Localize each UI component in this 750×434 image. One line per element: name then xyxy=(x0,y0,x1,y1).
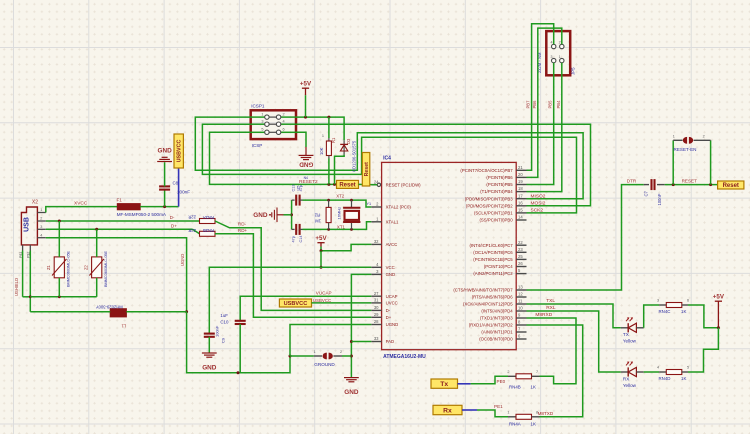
junction R2 top xyxy=(327,199,330,202)
svg-text:24: 24 xyxy=(374,179,379,184)
svg-text:+5V: +5V xyxy=(713,294,725,301)
junction Z1 top xyxy=(58,220,61,223)
IC4 right pin 18 PB4 xyxy=(516,191,526,193)
svg-text:PE1: PE1 xyxy=(494,404,503,409)
wire MISO2 loop (ICSP pin1 to IC pin17) xyxy=(195,117,583,199)
junction RESET-EN right xyxy=(709,183,712,186)
svg-text:(AIN2/PCINT11)PC2: (AIN2/PCINT11)PC2 xyxy=(473,271,513,276)
svg-text:C7: C7 xyxy=(644,190,649,196)
svg-text:30: 30 xyxy=(374,305,379,310)
+5V symbol right xyxy=(715,300,722,302)
svg-text:GND: GND xyxy=(202,365,217,372)
svg-text:100nF: 100nF xyxy=(177,190,190,195)
resistor RN4D 1K xyxy=(659,371,666,373)
IC4 right pin 17 PB3 xyxy=(516,198,526,200)
svg-text:PAD: PAD xyxy=(386,339,395,344)
svg-text:JP5: JP5 xyxy=(571,67,576,75)
svg-text:USBVCC: USBVCC xyxy=(284,301,308,307)
svg-text:(PCINT10)PC4: (PCINT10)PC4 xyxy=(484,264,514,269)
svg-text:Reset: Reset xyxy=(339,183,355,189)
svg-text:22R: 22R xyxy=(188,215,196,220)
svg-text:(XCK/AIN4/PCINT12)PD5: (XCK/AIN4/PCINT12)PD5 xyxy=(463,302,513,307)
IC4 left pin 1 XTAL1 xyxy=(371,221,381,223)
wire C7 to RESET node xyxy=(665,184,718,186)
svg-text:16MHz: 16MHz xyxy=(336,207,341,220)
junction crystal gnd tap xyxy=(290,213,293,216)
wire blue to USBVCC tag xyxy=(178,168,180,207)
svg-text:Rx: Rx xyxy=(443,407,452,414)
wire ground rail to jumper xyxy=(290,355,314,357)
svg-text:3: 3 xyxy=(551,55,553,59)
ground symbol below C9 xyxy=(202,353,217,357)
diode D3 xyxy=(343,140,345,155)
wire TX led to RN4C xyxy=(644,305,659,328)
IC4 right pin 14 PB0 xyxy=(516,219,526,221)
IC4 left pin 29 D+ xyxy=(371,316,381,318)
IC4 right pin 19 PB5 xyxy=(516,184,526,186)
IC4 right pin 7 PD1 xyxy=(516,331,526,333)
svg-text:XTAL2 (PC0): XTAL2 (PC0) xyxy=(386,205,412,210)
svg-text:BMMC0603MLC-05E: BMMC0603MLC-05E xyxy=(67,250,71,287)
IC4 left pin 2 XTAL2 xyxy=(371,206,381,208)
X2 pin2 stub xyxy=(37,220,45,222)
wire RN4B to IC pin9 M8RXD xyxy=(527,318,577,384)
svg-text:PB5: PB5 xyxy=(548,100,553,109)
svg-text:2: 2 xyxy=(283,112,285,116)
svg-text:C13: C13 xyxy=(292,185,296,192)
svg-text:11: 11 xyxy=(518,299,523,304)
IC4 right pin 10 PD4 xyxy=(516,310,526,312)
JP5 pin circle xyxy=(560,58,564,62)
svg-text:(RXD1/AIN1/INT2)PD2: (RXD1/AIN1/INT2)PD2 xyxy=(469,323,514,328)
svg-text:UGND: UGND xyxy=(386,322,399,327)
svg-text:D3: D3 xyxy=(346,138,351,144)
svg-text:C9: C9 xyxy=(221,337,226,343)
svg-text:AVCC: AVCC xyxy=(386,242,398,247)
wire RN4C to +5V node xyxy=(688,305,718,328)
svg-text:ICSP: ICSP xyxy=(252,143,263,148)
svg-text:USHIELD: USHIELD xyxy=(14,278,19,296)
wire jumper to gnd node xyxy=(342,355,351,357)
X2 shield pins P$1 P$2 xyxy=(22,245,24,251)
wire XT2 rail xyxy=(303,200,372,207)
junction L1 output xyxy=(185,310,188,313)
svg-text:25: 25 xyxy=(518,254,523,259)
svg-text:(CTS/HWB/AIN6/TO/INT7)PD7: (CTS/HWB/AIN6/TO/INT7)PD7 xyxy=(453,288,513,293)
svg-text:VUCAP: VUCAP xyxy=(316,290,332,295)
svg-text:GND: GND xyxy=(299,161,314,168)
IC4 right pin 26 PC4 xyxy=(516,266,526,268)
supply tag USBVCC vertical xyxy=(174,134,183,168)
wire Tx tag stub blue xyxy=(458,383,471,385)
IC4 left pin 28 UGND xyxy=(371,324,381,326)
svg-text:XT2: XT2 xyxy=(336,194,345,199)
svg-text:ATMEGA16U2-MU: ATMEGA16U2-MU xyxy=(383,354,426,360)
tag Tx xyxy=(431,379,458,388)
svg-text:(AIN0/INT1)PD1: (AIN0/INT1)PD1 xyxy=(481,330,513,335)
svg-text:21: 21 xyxy=(518,165,523,170)
svg-text:D-: D- xyxy=(386,308,391,313)
svg-text:4: 4 xyxy=(551,41,553,45)
IC4 right pin 13 PD7 xyxy=(516,289,526,291)
ground symbol above C8 xyxy=(157,157,172,161)
capacitor C9 100nF plates xyxy=(204,334,215,337)
IC4 right pin 23 PC6 xyxy=(516,251,526,253)
svg-text:RESET2: RESET2 xyxy=(299,179,318,185)
svg-text:PB6: PB6 xyxy=(532,100,537,109)
svg-text:(PCINT9/OC1B)PC5: (PCINT9/OC1B)PC5 xyxy=(473,257,513,262)
wire gnd stub to riser xyxy=(284,214,292,216)
svg-text:29: 29 xyxy=(374,312,379,317)
svg-text:BMMC0603MLC-05E: BMMC0603MLC-05E xyxy=(104,250,108,287)
svg-text:Z1: Z1 xyxy=(46,264,51,270)
wire Reset tag to IC RESET pin xyxy=(359,183,378,185)
junction Z1 bottom xyxy=(58,295,61,298)
svg-text:C14: C14 xyxy=(299,236,303,243)
svg-text:23: 23 xyxy=(518,247,523,252)
svg-text:X2: X2 xyxy=(32,199,38,205)
X2 pin1 stub xyxy=(37,212,45,214)
JP5 pin circle xyxy=(552,44,556,48)
IC4 right pin 5 PC2 xyxy=(516,273,526,275)
svg-text:26: 26 xyxy=(518,261,523,266)
svg-text:GROUND: GROUND xyxy=(314,362,335,367)
connector ICSP1 box xyxy=(251,110,296,139)
svg-text:28: 28 xyxy=(374,319,379,324)
wire RN4A to IC pin8 xyxy=(527,325,583,417)
wire UCAP to C10 xyxy=(240,296,371,321)
svg-text:RN3A: RN3A xyxy=(203,215,214,220)
wire UGND rail down and right xyxy=(187,312,290,373)
wire +5V rail ICSP pin2 xyxy=(296,117,344,140)
svg-text:RN3B: RN3B xyxy=(203,228,214,233)
wire ICSP pin4 MOSI2 rail to IC pin16 xyxy=(296,124,591,206)
svg-text:3: 3 xyxy=(261,120,263,124)
svg-text:ICSP1: ICSP1 xyxy=(251,103,265,108)
svg-text:VCC: VCC xyxy=(386,265,395,270)
svg-text:(SCLK/PCINT1)PB1: (SCLK/PCINT1)PB1 xyxy=(474,211,513,216)
junction RESET-EN left xyxy=(672,183,675,186)
connector JP5 box xyxy=(546,31,570,75)
wire D+ row USB pin3 to resistor xyxy=(46,228,193,230)
svg-text:F1: F1 xyxy=(117,197,123,202)
svg-text:(INT5/AIN3)PD4: (INT5/AIN3)PD4 xyxy=(481,309,513,314)
svg-text:(TXD1/INT3)PD3: (TXD1/INT3)PD3 xyxy=(480,316,513,321)
junction ground rail right xyxy=(350,355,353,358)
wire RESET2 rail (ICSP pin5 to IC RESET) xyxy=(210,132,337,184)
svg-text:GND: GND xyxy=(253,212,268,219)
svg-text:12: 12 xyxy=(518,292,523,297)
wire PB7 (JP5 pin4 to IC pin21) xyxy=(527,24,554,171)
svg-text:100nF: 100nF xyxy=(657,193,662,205)
wire varistor common rail xyxy=(30,296,96,298)
IC4 right pin 11 PD5 xyxy=(516,303,526,305)
svg-text:1: 1 xyxy=(40,208,42,212)
svg-text:RN4D: RN4D xyxy=(659,376,671,381)
tag Reset vertical xyxy=(362,153,370,187)
junction R1 top xyxy=(327,116,330,119)
svg-text:(PCINT7/OC0A/OC1C)PB7: (PCINT7/OC0A/OC1C)PB7 xyxy=(460,168,513,173)
svg-text:2: 2 xyxy=(559,41,561,45)
svg-text:C8: C8 xyxy=(173,181,179,186)
svg-text:31: 31 xyxy=(374,298,379,303)
svg-text:UCAP: UCAP xyxy=(386,294,398,299)
wire fuse to junction xyxy=(140,206,178,208)
capacitor C14 in XT1 rail xyxy=(292,228,295,230)
svg-text:1: 1 xyxy=(559,55,561,59)
svg-text:33: 33 xyxy=(374,336,379,341)
wire shield rail to L1 xyxy=(30,311,110,313)
junction Y1 top xyxy=(350,199,353,202)
IC4 left pin 33 PAD xyxy=(371,341,381,343)
junction UGND meets ground rail xyxy=(289,355,292,358)
solder jumper RESET-EN xyxy=(672,140,674,184)
svg-text:PB4: PB4 xyxy=(556,100,561,109)
svg-text:RN4B: RN4B xyxy=(509,385,521,390)
IC4 left pin 30 D- xyxy=(371,309,381,311)
svg-text:Z2: Z2 xyxy=(83,264,88,270)
wire XT1 rail xyxy=(303,222,372,230)
IC4 right pin 6 PD0 xyxy=(516,338,526,340)
capacitor C13 in XT2 rail xyxy=(292,199,295,201)
svg-text:2: 2 xyxy=(340,350,342,354)
svg-text:+5V: +5V xyxy=(300,81,312,88)
wire VCC rail xyxy=(209,267,371,333)
wire PB6 (JP5 pin2 to IC pin20) xyxy=(527,28,562,177)
svg-text:MF-MSMF050-2 500mA: MF-MSMF050-2 500mA xyxy=(117,212,167,217)
wire XVCC from USB pin1 xyxy=(46,207,118,213)
svg-text:RX: RX xyxy=(623,377,629,382)
svg-text:Yellow: Yellow xyxy=(623,339,637,344)
svg-text:19: 19 xyxy=(518,179,523,184)
IC4 right pin 16 PB2 xyxy=(516,205,526,207)
svg-text:RN4C: RN4C xyxy=(659,309,671,314)
svg-text:(T1/PCINT4)PB4: (T1/PCINT4)PB4 xyxy=(480,189,513,194)
wire C10 to ground rail xyxy=(239,324,241,373)
IC4 right pin 20 PB6 xyxy=(516,176,526,178)
ICSP1 pin row 1/2 circles xyxy=(269,116,276,118)
svg-text:XVCC: XVCC xyxy=(74,201,88,207)
svg-text:22R: 22R xyxy=(188,228,196,233)
svg-text:PB7: PB7 xyxy=(526,100,531,109)
junction +5V drop xyxy=(304,116,307,119)
wire Tx row to RN4B xyxy=(471,376,508,384)
svg-text:47p: 47p xyxy=(292,236,296,242)
capacitor C10 1uF plates xyxy=(235,321,246,324)
svg-text:MH2029-300Y: MH2029-300Y xyxy=(96,304,123,309)
tag Reset (to RESET pin) xyxy=(337,180,359,188)
LED TX xyxy=(621,327,628,329)
svg-text:GND: GND xyxy=(157,148,172,155)
resistor RN4A 1K xyxy=(508,416,516,418)
svg-text:RESET: RESET xyxy=(682,179,698,184)
svg-text:USBVCC: USBVCC xyxy=(177,140,183,163)
IC U-IC4 ATMEGA16U2 body xyxy=(382,162,517,349)
junction VCC rail xyxy=(320,266,323,269)
JP5 pin circle xyxy=(552,58,556,62)
varistor Z2 xyxy=(92,257,102,278)
X2 pin4 stub xyxy=(37,237,45,239)
junction PAD node xyxy=(350,340,353,343)
svg-text:1K: 1K xyxy=(531,385,536,390)
svg-text:18: 18 xyxy=(518,186,523,191)
IC4 right pin 25 PC5 xyxy=(516,258,526,260)
svg-text:1: 1 xyxy=(261,112,263,116)
ferrite L1 body xyxy=(110,309,126,317)
svg-text:7: 7 xyxy=(536,370,538,374)
svg-text:5: 5 xyxy=(687,366,689,370)
svg-text:TX: TX xyxy=(623,332,629,337)
wire C8 chain up xyxy=(164,190,166,207)
svg-text:1: 1 xyxy=(673,134,675,138)
wire SCK2 loop (ICSP pin3 to IC pin15) xyxy=(202,124,576,213)
IC4 right pin 22 PC7 xyxy=(516,244,526,246)
IC4 left pin 31 UVCC xyxy=(371,302,381,304)
svg-text:27: 27 xyxy=(374,291,379,296)
solder jumper GROUND xyxy=(314,355,322,357)
svg-text:1M: 1M xyxy=(315,219,321,224)
svg-text:4: 4 xyxy=(283,120,285,124)
resistor RN4C 1K xyxy=(659,304,666,306)
+5V symbol near AVCC xyxy=(317,242,324,244)
svg-text:RN4A: RN4A xyxy=(509,421,521,426)
svg-text:IC4: IC4 xyxy=(383,156,391,162)
wire PB4 (JP5 pin1 to IC pin18) xyxy=(527,63,562,192)
svg-text:(PCINT6)PB6: (PCINT6)PB6 xyxy=(486,175,513,180)
svg-text:(PDI/MOSI/PCINT2)PB2: (PDI/MOSI/PCINT2)PB2 xyxy=(466,203,513,208)
capacitor C7 100nF plates xyxy=(644,184,649,186)
resistor RN3A 22R (D- line) xyxy=(200,219,216,224)
svg-text:PE0: PE0 xyxy=(497,379,506,384)
wire AVCC branch xyxy=(321,244,371,250)
junction +5V branch xyxy=(320,249,323,252)
IC4 left pin 3 GND xyxy=(371,273,381,275)
wire PAD to node xyxy=(351,341,371,343)
junction D3 bottom xyxy=(333,183,336,186)
LED RX xyxy=(621,371,628,373)
resistor R1 10K pullup xyxy=(328,117,330,138)
varistor Z1 xyxy=(54,257,64,278)
svg-text:100nF: 100nF xyxy=(215,325,220,337)
svg-text:15: 15 xyxy=(518,208,523,213)
svg-text:4: 4 xyxy=(40,233,42,237)
wire XTAL2 rail left riser xyxy=(291,200,293,229)
resistor RN3B 22R (D+ line) xyxy=(200,231,216,236)
crystal Y1 xyxy=(351,200,353,208)
wire RN4D to +5V node xyxy=(688,328,718,372)
svg-text:3: 3 xyxy=(40,225,42,229)
wire GND pin3 down xyxy=(351,274,371,377)
svg-text:6: 6 xyxy=(687,299,689,303)
junction shield xyxy=(29,295,32,298)
svg-text:32: 32 xyxy=(374,239,379,244)
junction Y1 bottom xyxy=(350,228,353,231)
svg-text:UVCC: UVCC xyxy=(386,301,398,306)
svg-text:M8TXD: M8TXD xyxy=(538,411,554,416)
svg-text:L1: L1 xyxy=(121,324,126,329)
svg-text:22: 22 xyxy=(518,240,523,245)
wire C9 to GND xyxy=(208,337,210,353)
ground symbol below IC xyxy=(344,378,359,382)
USB connector X2 body xyxy=(21,207,37,245)
svg-text:XTAL1: XTAL1 xyxy=(386,219,399,224)
svg-text:(INT4/ICP1/CLK0)PC7: (INT4/ICP1/CLK0)PC7 xyxy=(469,243,513,248)
junction R2 bottom xyxy=(327,228,330,231)
svg-text:1: 1 xyxy=(314,350,316,354)
svg-text:1K: 1K xyxy=(531,421,536,426)
svg-text:D+: D+ xyxy=(386,315,392,320)
svg-text:(OC0B/INT0)PD0: (OC0B/INT0)PD0 xyxy=(479,337,513,342)
svg-text:1: 1 xyxy=(507,411,509,415)
IC4 right pin 9 PD3 xyxy=(516,317,526,319)
svg-text:C10: C10 xyxy=(220,320,229,325)
IC4 left pin 32 AVCC xyxy=(371,243,381,245)
svg-text:3: 3 xyxy=(657,299,659,303)
svg-text:1K: 1K xyxy=(681,309,686,314)
svg-text:DTR: DTR xyxy=(627,179,637,184)
wire D- diagonal to RD- xyxy=(215,221,371,310)
resistor RN4B 1K xyxy=(508,375,516,377)
svg-text:(RTS/AIN5/INT6)PD6: (RTS/AIN5/INT6)PD6 xyxy=(472,295,514,300)
wire PB5 (JP5 pin3 to IC pin19) xyxy=(527,63,554,185)
svg-text:R2: R2 xyxy=(314,213,320,218)
svg-text:CD1206-S01575: CD1206-S01575 xyxy=(352,140,357,172)
svg-text:USB: USB xyxy=(24,217,31,232)
capacitor C8 plates xyxy=(159,186,170,189)
svg-text:5: 5 xyxy=(261,128,263,132)
svg-text:Reset: Reset xyxy=(364,162,370,176)
svg-text:Yellow: Yellow xyxy=(623,383,637,388)
svg-text:20: 20 xyxy=(518,172,523,177)
svg-text:2: 2 xyxy=(40,217,42,221)
svg-text:N4: N4 xyxy=(304,176,308,180)
svg-text:XT1: XT1 xyxy=(337,225,346,230)
svg-text:R1: R1 xyxy=(331,137,336,143)
ground symbol below ICSP xyxy=(305,147,307,155)
junction Z2 top xyxy=(95,228,98,231)
fuse F1 body xyxy=(117,204,140,210)
svg-text:RD+: RD+ xyxy=(238,228,248,233)
svg-text:6: 6 xyxy=(283,128,285,132)
svg-text:RESET-EN: RESET-EN xyxy=(674,147,697,152)
IC4 left pin 4 VCC xyxy=(371,266,381,268)
svg-text:Reset: Reset xyxy=(723,183,739,189)
X2 pin3 stub xyxy=(37,228,45,230)
IC4 left pin 27 UCAP xyxy=(371,295,381,297)
wire Rx tag stub blue xyxy=(462,409,477,411)
svg-text:10K: 10K xyxy=(319,147,324,155)
wire D- row USB pin2 to resistor xyxy=(46,220,200,222)
svg-text:RD-: RD- xyxy=(238,221,247,226)
svg-text:(PCINT5)PB5: (PCINT5)PB5 xyxy=(486,182,513,187)
junction fuse output xyxy=(163,205,166,208)
JP5 pin circle xyxy=(560,44,564,48)
svg-text:16: 16 xyxy=(518,200,523,205)
wire +5V to VCC rail xyxy=(320,251,322,268)
svg-text:(OC1A/PCINT8)PC6: (OC1A/PCINT8)PC6 xyxy=(473,250,513,255)
+5V symbol above ICSP xyxy=(305,88,307,95)
wire DTR from IC pin13 xyxy=(527,185,644,290)
svg-text:+5V: +5V xyxy=(315,235,327,242)
IC4 right pin 12 PD6 xyxy=(516,296,526,298)
wire D+ diagonal xyxy=(193,229,200,234)
IC4 left pin 24 RESET xyxy=(371,184,377,186)
IC4 right pin 8 PD2 xyxy=(516,324,526,326)
svg-text:14: 14 xyxy=(518,215,523,220)
svg-text:17: 17 xyxy=(518,193,523,198)
svg-text:D-: D- xyxy=(170,215,175,220)
wire Rx row to RN4A xyxy=(477,410,508,417)
